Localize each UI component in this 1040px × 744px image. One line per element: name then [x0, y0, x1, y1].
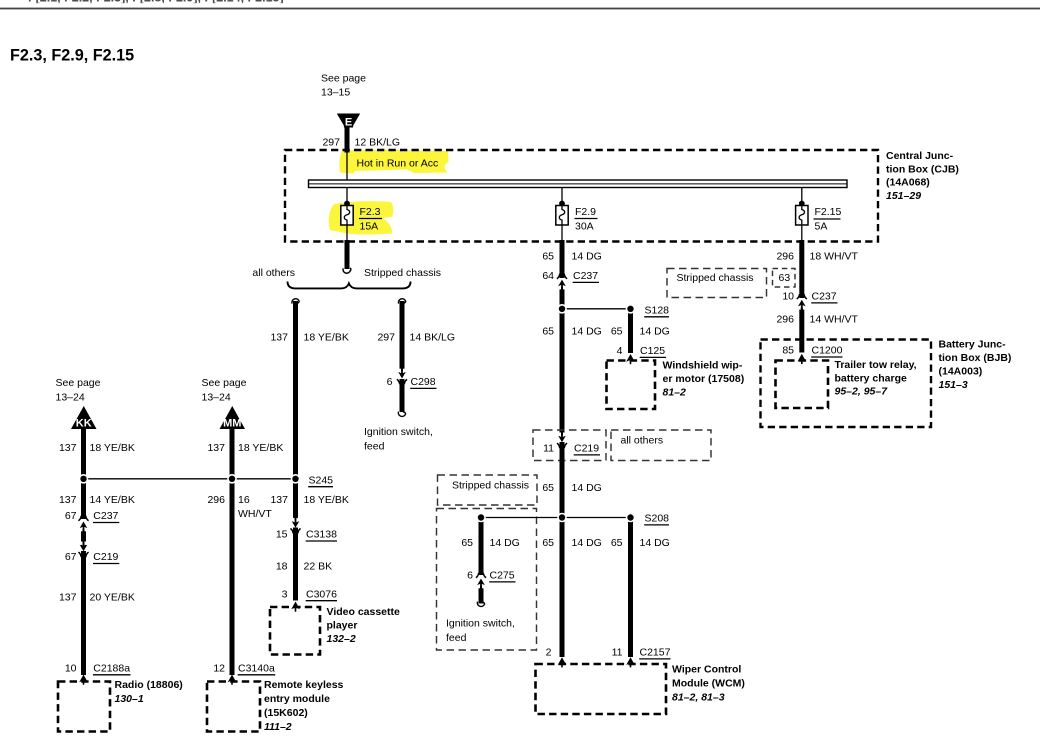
svg-text:18 YE/BK: 18 YE/BK	[304, 332, 349, 344]
svg-text:151–3: 151–3	[939, 379, 968, 391]
svg-text:all others: all others	[252, 267, 295, 279]
radio module label	[115, 679, 183, 705]
svg-text:C2188a: C2188a	[93, 663, 130, 675]
svg-text:Central Junc-: Central Junc-	[886, 150, 954, 162]
svg-text:2: 2	[546, 647, 552, 659]
wire: main 14 DG down to WCM pin 2	[560, 518, 565, 658]
yellow highlighter stroke over "Hot in Run or Acc"	[339, 150, 448, 174]
svg-text:3: 3	[282, 589, 288, 601]
wire: stub from C237 down to S128 junction	[560, 287, 565, 309]
svg-text:12 BK/LG: 12 BK/LG	[355, 137, 401, 149]
options bracket	[288, 282, 411, 289]
svg-text:18 WH/VT: 18 WH/VT	[810, 251, 859, 263]
fuse F2.3 value label	[359, 206, 382, 232]
svg-text:18: 18	[276, 561, 288, 573]
wire: 12 BK/LG feed from E into CJB	[345, 127, 350, 153]
junction dot left branch of S208	[476, 513, 486, 523]
svg-text:297: 297	[377, 332, 395, 344]
video cassette player label	[327, 606, 401, 645]
svg-text:all others: all others	[621, 435, 664, 447]
svg-text:(14A068): (14A068)	[886, 177, 930, 189]
fuse F2.15 value label	[814, 206, 842, 232]
wire: main 14 DG below S128	[560, 309, 565, 435]
svg-text:See page: See page	[321, 73, 366, 85]
off-page connector triangle E	[337, 114, 360, 129]
wire: bus to fuse F2.9	[561, 188, 563, 206]
junction dot on MM column	[227, 474, 237, 484]
wire: fuse F2.3 to CJB edge	[346, 225, 348, 241]
wire: 14 DG below C219 to S208	[560, 442, 565, 518]
all others option box beside C219	[611, 430, 711, 461]
svg-text:F2.9: F2.9	[575, 206, 596, 218]
connector C219 arrow (F2.9 column, down)	[557, 433, 567, 449]
svg-text:130–1: 130–1	[115, 693, 144, 705]
svg-text:C125: C125	[640, 345, 665, 357]
junction dot above F2.3	[344, 201, 350, 207]
trailer tow relay dashed box	[776, 361, 829, 409]
svg-text:C298: C298	[411, 376, 436, 388]
svg-text:(15K602): (15K602)	[264, 707, 308, 719]
node MM: see page reference	[202, 377, 247, 403]
connector C1200 arrow into trailer tow relay	[798, 354, 807, 364]
connector C237 arrow (KK column, up)	[78, 516, 88, 532]
svg-text:20 YE/BK: 20 YE/BK	[90, 592, 135, 604]
svg-text:MM: MM	[223, 418, 241, 430]
svg-text:4: 4	[617, 345, 623, 357]
svg-text:feed: feed	[446, 632, 467, 644]
trailer tow relay label	[835, 359, 917, 398]
wire: left branch 18 YE/BK down to S245	[293, 301, 298, 479]
wiper control module dashed box	[536, 664, 667, 714]
windshield wiper motor dashed box	[607, 361, 656, 410]
splice S128 junction dot on main wire	[557, 304, 567, 314]
svg-text:Remote keyless: Remote keyless	[264, 679, 344, 691]
svg-text:KK: KK	[76, 418, 92, 430]
svg-text:Radio (18806): Radio (18806)	[115, 679, 183, 691]
svg-text:14 DG: 14 DG	[572, 326, 602, 338]
svg-text:65: 65	[611, 326, 623, 338]
connector C2157 arrow into WCM	[626, 657, 635, 667]
svg-text:Wiper Control: Wiper Control	[672, 664, 741, 676]
svg-text:13–15: 13–15	[321, 87, 350, 99]
label: Ignition switch, feed (branch 2)	[446, 618, 515, 645]
wire: fuse F2.15 to CJB edge	[801, 225, 803, 241]
svg-text:65: 65	[542, 326, 554, 338]
svg-text:132–2: 132–2	[327, 633, 356, 645]
svg-text:65: 65	[611, 537, 623, 549]
svg-text:C275: C275	[490, 570, 515, 582]
svg-text:137: 137	[270, 332, 288, 344]
wire: F2.3 output below CJB	[345, 240, 350, 269]
svg-text:14 DG: 14 DG	[640, 326, 670, 338]
svg-text:F2.3, F2.9, F2.15: F2.3, F2.9, F2.15	[10, 47, 134, 65]
cropped header text fragments	[28, 0, 284, 5]
svg-text:18 YE/BK: 18 YE/BK	[304, 494, 349, 506]
svg-text:Ignition switch,: Ignition switch,	[446, 618, 515, 630]
svg-text:64: 64	[542, 270, 554, 282]
svg-text:Ignition switch,: Ignition switch,	[364, 426, 433, 438]
svg-text:15: 15	[276, 529, 288, 541]
wire: left branch 14 DG inside option box	[479, 518, 484, 576]
svg-text:C3076: C3076	[306, 589, 337, 601]
svg-text:137: 137	[270, 494, 288, 506]
svg-text:65: 65	[542, 482, 554, 494]
svg-text:22 BK: 22 BK	[304, 561, 333, 573]
connector C298 arrow (down)	[397, 369, 407, 385]
svg-text:Stripped chassis: Stripped chassis	[452, 480, 529, 492]
node KK: see page reference	[56, 377, 101, 403]
option hook at end of F2.3 feed wire	[343, 268, 351, 273]
connector C125 arrow into wiper motor	[626, 354, 635, 364]
stripped chassis option box (left of main wire)	[438, 475, 538, 505]
svg-text:151–29: 151–29	[886, 190, 921, 202]
wire: S128 branch to windshield wiper motor	[628, 309, 633, 353]
svg-text:E: E	[345, 117, 352, 129]
svg-text:C237: C237	[812, 291, 837, 303]
svg-text:Trailer tow relay,: Trailer tow relay,	[835, 359, 917, 371]
wire: connector stub between C237 and C219	[81, 529, 86, 546]
wire: right branch 14 DG down to C2157	[628, 518, 633, 658]
svg-text:13–24: 13–24	[202, 391, 231, 403]
wire: F2.15 output 18 WH/VT	[799, 240, 804, 298]
off-page connector triangle MM	[220, 406, 246, 430]
svg-text:111–2: 111–2	[264, 721, 292, 733]
svg-text:er motor (17508): er motor (17508)	[663, 373, 745, 385]
connector C219 arrow (KK column, down)	[78, 542, 88, 558]
stripped chassis option box (F2.15 column)	[667, 269, 767, 298]
svg-text:81–2, 81–3: 81–2, 81–3	[672, 692, 725, 704]
fuse F2.3	[341, 206, 353, 226]
splice S128 end dot	[626, 304, 636, 314]
connector C3140a arrow into keyless entry module	[228, 675, 237, 685]
option hook at top of right branch	[398, 299, 405, 304]
svg-text:137: 137	[207, 442, 225, 454]
svg-text:14 WH/VT: 14 WH/VT	[810, 314, 859, 326]
video cassette player dashed box	[270, 607, 320, 655]
junction dot above F2.9	[559, 201, 565, 207]
connector C237 arrow (F2.9 column, up)	[557, 274, 567, 290]
splice S128 label	[644, 305, 669, 317]
fuse F2.9	[556, 206, 568, 226]
svg-text:(14A003): (14A003)	[939, 366, 983, 378]
svg-text:battery charge: battery charge	[835, 373, 908, 385]
svg-text:C1200: C1200	[812, 345, 843, 357]
svg-text:11: 11	[612, 647, 623, 659]
wire: horizontal tie KK-MM-S245	[84, 478, 296, 480]
tall option box around ignition feed branch	[437, 509, 537, 651]
svg-text:13–24: 13–24	[56, 391, 85, 403]
svg-text:297: 297	[322, 137, 340, 149]
option hook at top of left branch	[292, 299, 299, 304]
svg-text:S128: S128	[645, 305, 670, 317]
svg-text:See page: See page	[56, 377, 101, 389]
svg-text:81–2: 81–2	[663, 386, 687, 398]
svg-text:player: player	[327, 620, 358, 632]
svg-text:Video cassette: Video cassette	[327, 606, 401, 618]
fuse F2.15	[796, 206, 808, 226]
windshield wiper motor label	[663, 359, 745, 398]
wiper control module label	[672, 664, 745, 704]
wire: thin segment inside CJB down to bus	[346, 152, 348, 180]
svg-text:11: 11	[543, 443, 554, 455]
node E: see page reference	[321, 73, 366, 99]
svg-text:F2.3: F2.3	[360, 206, 381, 218]
svg-text:Battery Junc-: Battery Junc-	[939, 339, 1007, 351]
wire: 14 WH/VT down to C1200	[799, 308, 804, 353]
radio module dashed box	[58, 682, 110, 732]
svg-text:tion Box (BJB): tion Box (BJB)	[939, 352, 1012, 364]
svg-text:entry module: entry module	[264, 693, 330, 705]
svg-text:C3140a: C3140a	[238, 663, 275, 675]
wire: stub below C275	[479, 586, 484, 604]
option hook at bottom of C275 stub	[477, 602, 484, 607]
wire: horizontal S208 tie	[481, 517, 631, 519]
svg-text:65: 65	[461, 537, 473, 549]
yellow highlighter stroke over fuse F2.3 / 15A	[329, 201, 394, 235]
svg-text:14 DG: 14 DG	[572, 482, 602, 494]
svg-text:296: 296	[776, 251, 794, 263]
connector C275 arrow (up)	[476, 573, 486, 589]
svg-text:C237: C237	[573, 270, 598, 282]
svg-text:18 YE/BK: 18 YE/BK	[238, 442, 283, 454]
wire: fuse F2.9 to CJB edge	[561, 225, 563, 241]
svg-text:Hot in Run or Acc: Hot in Run or Acc	[357, 158, 439, 170]
svg-text:18 YE/BK: 18 YE/BK	[90, 442, 135, 454]
remote keyless entry module dashed box	[207, 682, 260, 732]
svg-text:See page: See page	[202, 377, 247, 389]
svg-text:C219: C219	[574, 443, 599, 455]
wire: right branch 14 BK/LG	[400, 301, 405, 371]
connector C2188a arrow into radio	[79, 675, 88, 685]
connector C3076 arrow into video cassette player	[291, 602, 300, 612]
option box around pin 63	[773, 269, 796, 288]
BJB name label	[939, 339, 1012, 392]
splice S245 junction dot	[291, 474, 301, 484]
battery junction box outer dashed outline	[761, 340, 932, 428]
splice S208 junction dot on main wire	[557, 513, 567, 523]
junction dots layer (white halo style)	[79, 304, 636, 522]
svg-text:67: 67	[65, 510, 77, 522]
svg-text:67: 67	[65, 551, 77, 563]
svg-text:S208: S208	[645, 513, 670, 525]
svg-text:S245: S245	[309, 474, 334, 486]
bus bar inside CJB	[309, 180, 848, 188]
svg-text:14 DG: 14 DG	[640, 537, 670, 549]
svg-text:Stripped chassis: Stripped chassis	[364, 267, 441, 279]
svg-text:65: 65	[542, 537, 554, 549]
svg-text:10: 10	[782, 291, 794, 303]
wire: horizontal to S128	[562, 308, 631, 310]
svg-text:Windshield wip-: Windshield wip-	[663, 359, 743, 371]
splice S245 label	[308, 474, 333, 486]
svg-text:10: 10	[65, 663, 77, 675]
junction dot on KK column	[79, 474, 89, 484]
splice S208 end dot	[626, 513, 636, 523]
splice S208 label	[644, 513, 669, 525]
connector C3138 arrow (down)	[290, 518, 300, 534]
svg-text:12: 12	[213, 663, 225, 675]
off-page connector triangle KK	[71, 406, 97, 430]
svg-text:296: 296	[776, 314, 794, 326]
in-line connector C219 dashed option box	[533, 430, 606, 461]
svg-text:296: 296	[207, 494, 225, 506]
svg-text:F2.15: F2.15	[815, 206, 842, 218]
svg-text:65: 65	[542, 251, 554, 263]
wire: 22 BK down to C3076	[293, 528, 298, 601]
svg-text:Stripped chassis: Stripped chassis	[677, 272, 754, 284]
svg-text:feed: feed	[364, 441, 385, 453]
label: Ignition switch, feed	[364, 426, 433, 453]
svg-text:14 BK/LG: 14 BK/LG	[410, 332, 456, 344]
svg-text:14 DG: 14 DG	[490, 537, 520, 549]
svg-text:137: 137	[59, 592, 77, 604]
wire: MM column 18 YE/BK	[230, 428, 235, 675]
svg-text:137: 137	[59, 442, 77, 454]
wire: KK column 18 YE/BK	[81, 428, 86, 519]
svg-text:95–2, 95–7: 95–2, 95–7	[835, 386, 889, 398]
svg-text:16: 16	[238, 494, 250, 506]
svg-text:85: 85	[782, 345, 794, 357]
WCM pin 2 arrow	[558, 657, 567, 667]
fuse F2.9 value label	[575, 206, 598, 232]
connector arrows layer	[78, 274, 807, 685]
wire: KK column 20 YE/BK to radio	[81, 551, 86, 675]
svg-text:Module (WCM): Module (WCM)	[672, 678, 745, 690]
svg-text:63: 63	[779, 272, 791, 284]
svg-text:C2157: C2157	[640, 647, 671, 659]
wire: bus to fuse F2.15	[801, 188, 803, 206]
wire: bus to fuse F2.3	[346, 188, 348, 206]
option hook at bottom of ignition feed stub	[398, 412, 405, 417]
wire: S245 down to C3138	[293, 478, 298, 520]
svg-text:C237: C237	[93, 510, 118, 522]
Central Junction Box (CJB) dashed outline	[285, 150, 878, 242]
svg-text:14 YE/BK: 14 YE/BK	[90, 494, 135, 506]
svg-text:15A: 15A	[360, 220, 379, 232]
svg-text:14 DG: 14 DG	[572, 537, 602, 549]
wire: F2.9 output 14 DG	[560, 240, 565, 278]
wire: below C298 to ignition switch feed	[400, 379, 405, 412]
svg-text:14 DG: 14 DG	[572, 251, 602, 263]
junction dot above F2.15	[799, 201, 805, 207]
top horizontal rule	[0, 8, 1040, 10]
svg-text:WH/VT: WH/VT	[238, 508, 272, 520]
CJB name label	[886, 150, 959, 202]
svg-text:C219: C219	[93, 551, 118, 563]
svg-text:137: 137	[59, 494, 77, 506]
svg-text:30A: 30A	[575, 220, 594, 232]
svg-text:5A: 5A	[815, 220, 828, 232]
remote keyless entry module label	[264, 679, 344, 733]
connector C237 arrow (F2.15 column, up)	[797, 294, 807, 310]
svg-text:tion Box (CJB): tion Box (CJB)	[886, 163, 959, 175]
svg-text:6: 6	[387, 376, 393, 388]
svg-text:C3138: C3138	[306, 529, 337, 541]
svg-text:6: 6	[467, 570, 473, 582]
